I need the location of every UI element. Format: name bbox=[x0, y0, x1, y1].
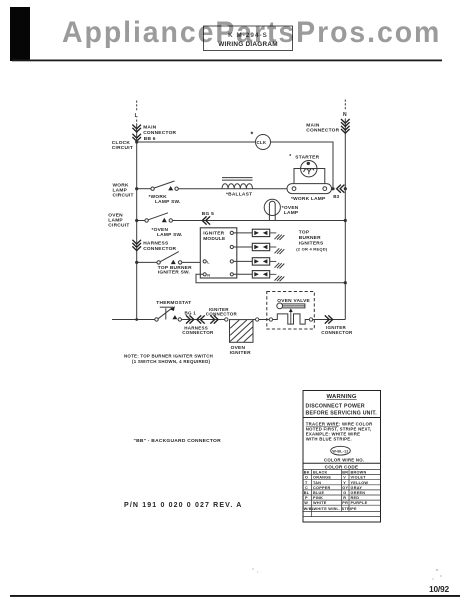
svg-text:*WORK LAMP: *WORK LAMP bbox=[291, 196, 326, 202]
oven valve box bbox=[267, 292, 315, 330]
scan bar bbox=[10, 7, 30, 61]
ground 1 bbox=[275, 234, 285, 240]
bottom rule bbox=[10, 595, 460, 597]
svg-text:B3: B3 bbox=[333, 194, 339, 199]
svg-text:CONNECTOR: CONNECTOR bbox=[321, 330, 353, 335]
svg-text:LAMP SW.: LAMP SW. bbox=[157, 232, 183, 238]
label oven lamp circuit bbox=[108, 213, 129, 229]
svg-text:GY: GY bbox=[342, 486, 348, 490]
ballast bbox=[222, 178, 253, 189]
node N bbox=[342, 110, 349, 119]
svg-text:WHITE: WHITE bbox=[313, 501, 327, 505]
svg-text:CIRCUIT: CIRCUIT bbox=[108, 223, 129, 229]
svg-text:COPPER: COPPER bbox=[313, 486, 331, 490]
svg-text:GRAY: GRAY bbox=[351, 486, 363, 490]
svg-text:STARTER: STARTER bbox=[295, 155, 319, 161]
svg-text:(1 SWITCH SHOWN, 4 REQUIRED): (1 SWITCH SHOWN, 4 REQUIRED) bbox=[132, 359, 211, 364]
svg-text:BK: BK bbox=[304, 471, 310, 475]
svg-text:N: N bbox=[343, 112, 347, 118]
svg-text:BR: BR bbox=[342, 471, 348, 475]
thermostat circuit wire bbox=[112, 319, 155, 321]
valve heater element bbox=[269, 318, 272, 321]
svg-text:BG 1: BG 1 bbox=[185, 310, 197, 315]
svg-text:IGNITER SW.: IGNITER SW. bbox=[158, 270, 190, 276]
svg-text:CONNECTOR: CONNECTOR bbox=[143, 130, 176, 136]
module pin OL bbox=[203, 260, 206, 263]
module neutral wire bbox=[196, 274, 345, 282]
harness connector chevrons bbox=[132, 240, 141, 251]
svg-text:P/N 191 0 020 0 027 RE: P/N 191 0 020 0 027 REV. A bbox=[124, 502, 243, 509]
label main connector right bbox=[306, 122, 339, 133]
top burner igniter switch bbox=[157, 252, 182, 264]
thermostat bbox=[155, 307, 182, 321]
svg-text:CIRCUIT: CIRCUIT bbox=[113, 193, 134, 199]
label top burner igniters bbox=[296, 230, 328, 252]
svg-text:MODULE: MODULE bbox=[203, 236, 226, 242]
svg-text:OVEN VALVE: OVEN VALVE bbox=[277, 298, 310, 304]
svg-text:NOTE: TOP BURNER IGNITER SWITC: NOTE: TOP BURNER IGNITER SWITCH bbox=[124, 354, 213, 359]
work lamp switch bbox=[151, 181, 178, 190]
svg-text:CONNECTOR: CONNECTOR bbox=[182, 330, 214, 335]
svg-text:MAIN: MAIN bbox=[143, 125, 157, 131]
svg-text:*: * bbox=[289, 154, 291, 160]
svg-text:IGNITERS: IGNITERS bbox=[299, 240, 324, 246]
svg-text:Y: Y bbox=[343, 481, 346, 485]
svg-text:*: * bbox=[251, 132, 254, 139]
spark igniter 3 bbox=[252, 258, 269, 265]
right main bus wire bbox=[344, 100, 346, 120]
warning box bbox=[303, 391, 381, 523]
svg-text:LAMP SW.: LAMP SW. bbox=[155, 199, 181, 205]
ground 3 bbox=[275, 263, 285, 269]
svg-text:PR: PR bbox=[342, 501, 348, 505]
svg-text:YELLOW: YELLOW bbox=[351, 481, 369, 485]
note text bbox=[124, 354, 213, 364]
svg-text:IGNITER: IGNITER bbox=[203, 231, 224, 237]
svg-text:*BALLAST: *BALLAST bbox=[226, 192, 252, 198]
spark igniter 4 bbox=[252, 271, 269, 278]
svg-text:"BB" - BACKGUARD CONNECTOR: "BB" - BACKGUARD CONNECTOR bbox=[134, 438, 222, 444]
title box bbox=[204, 26, 293, 51]
svg-text:W: W bbox=[304, 501, 308, 505]
starter bbox=[294, 161, 325, 184]
oven igniter bbox=[230, 320, 254, 343]
svg-text:W-BL-12: W-BL-12 bbox=[332, 449, 348, 453]
oven lamp switch bbox=[145, 213, 173, 222]
svg-text:RED: RED bbox=[351, 496, 360, 500]
ground 2 bbox=[275, 248, 285, 254]
svg-text:WARNING: WARNING bbox=[327, 394, 357, 400]
svg-text:COLOR CODE: COLOR CODE bbox=[325, 464, 359, 469]
oven lamp circuit wire bbox=[137, 220, 145, 222]
top burner igniter circuit wire bbox=[137, 261, 157, 263]
junction dot clock bbox=[135, 140, 138, 143]
svg-text:COLOR WIRE NO.: COLOR WIRE NO. bbox=[324, 457, 364, 462]
color code table bbox=[303, 470, 381, 517]
label work lamp circuit bbox=[113, 183, 134, 199]
svg-text:TOP: TOP bbox=[299, 230, 310, 236]
svg-text:10/92: 10/92 bbox=[429, 584, 450, 594]
wire CLK to node B3 bbox=[271, 142, 334, 189]
valve arrow bbox=[290, 312, 292, 324]
svg-text:L: L bbox=[135, 113, 138, 119]
clock circuit wire bbox=[137, 141, 256, 143]
valve solenoid bbox=[277, 303, 305, 309]
node L bbox=[133, 111, 140, 120]
svg-text:OVEN: OVEN bbox=[231, 345, 246, 351]
svg-text:DISCONNECT POWER: DISCONNECT POWER bbox=[306, 404, 365, 410]
svg-text:BLACK: BLACK bbox=[313, 471, 328, 475]
junction dot work lamp bbox=[135, 187, 138, 190]
svg-text:N: N bbox=[207, 274, 210, 278]
svg-text:ORANGE: ORANGE bbox=[313, 476, 331, 480]
svg-text:AppliancePartsPros.com: AppliancePartsPros.com bbox=[62, 17, 441, 50]
wire number oval bbox=[331, 446, 351, 455]
left main bus wire bbox=[136, 101, 138, 126]
svg-text:BROWN: BROWN bbox=[351, 471, 367, 475]
svg-text:MAIN: MAIN bbox=[306, 122, 320, 128]
svg-text:O: O bbox=[305, 476, 308, 480]
svg-text:R: R bbox=[343, 496, 346, 500]
clock motor CLK bbox=[256, 135, 271, 150]
label clock circuit bbox=[112, 140, 133, 151]
spark igniter 2 bbox=[252, 243, 269, 250]
svg-text:CLK: CLK bbox=[257, 140, 267, 145]
svg-text:VIOLET: VIOLET bbox=[351, 476, 367, 480]
svg-text:(2 OR 4 REQD): (2 OR 4 REQD) bbox=[296, 247, 328, 252]
svg-text:CIRCUIT: CIRCUIT bbox=[112, 145, 133, 151]
svg-text:BB 6: BB 6 bbox=[144, 136, 156, 142]
igniter connector right chevrons bbox=[325, 315, 333, 323]
main connector L chevrons bbox=[132, 125, 141, 142]
work lamp tube bbox=[287, 184, 332, 194]
svg-text:G: G bbox=[343, 491, 346, 495]
svg-text:CONNECTOR: CONNECTOR bbox=[306, 128, 339, 134]
svg-text:THERMOSTAT: THERMOSTAT bbox=[156, 300, 191, 306]
svg-text:P: P bbox=[305, 496, 308, 500]
module output wires bbox=[233, 233, 252, 274]
svg-text:LAMP: LAMP bbox=[284, 210, 299, 216]
main connector N chevrons bbox=[341, 119, 350, 133]
ground 4 bbox=[275, 276, 285, 282]
connector chevrons at B3 bbox=[337, 185, 345, 193]
svg-text:BL: BL bbox=[304, 491, 310, 495]
module pin ON bbox=[203, 273, 206, 276]
svg-text:IGNITER: IGNITER bbox=[230, 350, 251, 356]
svg-text:PURPLE: PURPLE bbox=[351, 501, 368, 505]
svg-text:V: V bbox=[343, 476, 346, 480]
igniter connector chevrons bbox=[197, 315, 218, 323]
svg-text:BG 5: BG 5 bbox=[202, 211, 214, 217]
svg-text:BEFORE SERVICING UNIT.: BEFORE SERVICING UNIT. bbox=[306, 410, 378, 416]
junction dot oven lamp bbox=[135, 219, 138, 222]
svg-text:BURNER: BURNER bbox=[299, 235, 321, 241]
work lamp circuit wire bbox=[137, 188, 151, 190]
svg-text:PINK: PINK bbox=[313, 496, 323, 500]
svg-text:GREEN: GREEN bbox=[351, 491, 366, 495]
svg-text:TAN: TAN bbox=[313, 481, 321, 485]
svg-text:C: C bbox=[305, 486, 308, 490]
oven lamp bbox=[264, 199, 280, 220]
svg-text:WHITE W/BL. STRIPE: WHITE W/BL. STRIPE bbox=[314, 507, 358, 511]
spark igniter 1 bbox=[252, 229, 269, 236]
svg-text:L: L bbox=[207, 261, 210, 265]
svg-text:CONNECTOR: CONNECTOR bbox=[143, 246, 176, 252]
svg-text:CONNECTOR: CONNECTOR bbox=[206, 312, 238, 317]
junction dot igniter row bbox=[135, 261, 138, 264]
svg-text:HARNESS: HARNESS bbox=[143, 241, 169, 247]
header rule bbox=[12, 60, 442, 62]
svg-text:T: T bbox=[305, 481, 308, 485]
svg-text:WITH BLUE STRIPE.: WITH BLUE STRIPE. bbox=[306, 436, 352, 441]
svg-text:BLUE: BLUE bbox=[313, 491, 325, 495]
igniter module U1 bbox=[200, 228, 237, 278]
module output pins bbox=[230, 231, 233, 276]
label main connector left bbox=[143, 125, 176, 136]
